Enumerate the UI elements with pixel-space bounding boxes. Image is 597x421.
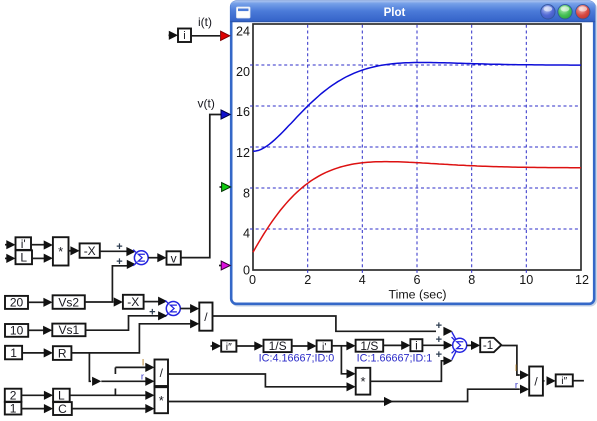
- gain block -X1: [80, 243, 100, 257]
- svg-text:Plot: Plot: [384, 7, 406, 19]
- svg-text:2: 2: [304, 273, 311, 287]
- divide block div1: [199, 303, 212, 331]
- block v: [167, 251, 181, 264]
- wire i' to 1/S 2: [332, 345, 347, 347]
- arrow into div2 lower: [145, 377, 154, 386]
- block i'' (first): [221, 340, 236, 351]
- block i (current source display): [178, 29, 191, 43]
- wire i-prime to multiplier: [31, 244, 46, 246]
- svg-text:6: 6: [413, 273, 420, 287]
- svg-text:*: *: [58, 244, 63, 259]
- wire i'' to 1/S 1: [236, 345, 255, 347]
- multiplier block *1: [53, 237, 69, 265]
- svg-text:Vs2: Vs2: [58, 295, 79, 309]
- wire -1 to div3 upper: [501, 346, 520, 376]
- svg-text:+: +: [436, 334, 442, 346]
- arrow into sum3 bottom: [443, 356, 452, 365]
- svg-text:1: 1: [10, 346, 17, 360]
- wire to div2 upper: [115, 366, 146, 368]
- svg-text:i: i: [183, 30, 185, 42]
- summing junction sum1: [133, 250, 137, 254]
- wire div2 output to mult3: [168, 374, 348, 387]
- vertical from L junction upper part: [114, 367, 116, 374]
- arrow into -X2: [114, 297, 123, 306]
- arrow into div1 lower: [190, 319, 199, 328]
- mid arrow on mult2 output wire: [384, 397, 393, 406]
- svg-text:-X: -X: [84, 244, 96, 258]
- wire i' branch to mult3: [341, 346, 347, 374]
- arrow into multiplier in1: [44, 240, 53, 249]
- wire R branch down: [89, 353, 91, 381]
- svg-text:4: 4: [243, 227, 250, 241]
- svg-text:*: *: [159, 393, 164, 408]
- wire mult2 output to div3 lower: [168, 389, 520, 401]
- constant block 10: [5, 324, 28, 337]
- input arrow into i-doubleprime block: [211, 345, 214, 347]
- svg-text:L: L: [58, 389, 65, 403]
- vertical from L junction lower part: [114, 389, 116, 396]
- arrow into integrator 2: [346, 341, 355, 350]
- title bar: [230, 1, 595, 22]
- svg-text:+: +: [436, 320, 442, 332]
- arrow into C block: [44, 404, 53, 413]
- arrow into i'' output block: [547, 376, 556, 385]
- svg-text:2: 2: [10, 389, 17, 403]
- multiplier block mult2: [155, 387, 169, 413]
- integrator block 1/S second: [356, 340, 384, 352]
- svg-text:C: C: [58, 402, 67, 416]
- block Vs2: [53, 295, 85, 309]
- block Vs1: [52, 324, 85, 337]
- gain block -1 (pentagon): [480, 338, 501, 352]
- arrow into integrator 1: [254, 341, 263, 350]
- svg-text:v: v: [171, 251, 177, 265]
- wire L to multiplier: [32, 257, 46, 259]
- svg-text:IC:4.16667;ID:0: IC:4.16667;ID:0: [259, 352, 335, 364]
- svg-text:IC:1.66667;ID:1: IC:1.66667;ID:1: [357, 352, 433, 364]
- svg-text:*: *: [360, 374, 365, 389]
- svg-text:1/S: 1/S: [360, 339, 378, 353]
- window buttons: [541, 5, 555, 19]
- wire Vs2 to -X2: [85, 301, 114, 303]
- wire mult3 output to sum3 bottom: [370, 361, 444, 382]
- wire R to div1 lower: [71, 324, 191, 353]
- constant block 1 (R value): [5, 346, 22, 360]
- wire -X2 to sum2: [144, 301, 159, 303]
- wire 1/S2 to i: [383, 344, 402, 346]
- arrow into mult2 lower: [145, 404, 154, 413]
- arrow into div1 upper: [190, 304, 199, 313]
- svg-text:Vs1: Vs1: [59, 323, 80, 337]
- svg-text:Time (sec): Time (sec): [388, 288, 446, 302]
- svg-text:L: L: [20, 251, 27, 265]
- constant block 20: [5, 296, 28, 309]
- wire v block to plot: [181, 115, 221, 258]
- gain block -X2: [123, 295, 144, 309]
- svg-text:+: +: [436, 349, 442, 361]
- input arrow into L block: [5, 257, 7, 259]
- svg-text:10: 10: [519, 273, 533, 287]
- divide block div3: [529, 367, 543, 396]
- constant block 2: [5, 389, 22, 402]
- arrow into sum1 plus1: [126, 247, 135, 256]
- arrow into sum3 top: [443, 327, 452, 336]
- wire *1 to -X1: [69, 250, 72, 252]
- wire 10 to Vs1: [28, 329, 44, 331]
- svg-text:-1: -1: [483, 340, 493, 352]
- input arrow into i-prime block: [5, 244, 7, 246]
- summing junction sum2: [165, 300, 169, 304]
- svg-text:8: 8: [243, 186, 250, 200]
- arrow into sum3 middle: [444, 341, 453, 350]
- red arrow plot input i(t): [221, 31, 230, 40]
- mid arrow on R branch wire: [92, 377, 101, 386]
- wire i to sum3: [422, 344, 444, 346]
- wire R branch to div2 lower: [101, 380, 146, 382]
- grid lines: [307, 25, 309, 274]
- arrow into R: [44, 348, 53, 357]
- block i'' (output): [556, 374, 573, 386]
- arrow into sum1 plus2: [127, 260, 136, 269]
- wire 1 to R: [22, 352, 44, 354]
- multiplier block mult3: [356, 368, 371, 395]
- wire sum2 to div1: [180, 308, 191, 310]
- arrow into L bottom block: [44, 391, 53, 400]
- constant block 1 (C value): [5, 402, 22, 414]
- arrow into v block: [157, 253, 166, 262]
- svg-text:R: R: [58, 346, 67, 360]
- arrow into mult3 in1: [347, 369, 356, 378]
- summing junction sum3: [452, 337, 456, 341]
- svg-text:20: 20: [10, 296, 24, 310]
- svg-text:10: 10: [10, 324, 24, 338]
- arrow into sum2 input1: [158, 297, 167, 306]
- arrow into i block (state): [401, 341, 410, 350]
- arrow into div2 upper: [145, 363, 154, 372]
- svg-text:20: 20: [236, 65, 250, 79]
- wire Vs1 to sum2: [86, 316, 159, 330]
- svg-text:i″: i″: [226, 341, 232, 353]
- svg-text:12: 12: [575, 273, 589, 287]
- svg-text:1/S: 1/S: [269, 339, 287, 353]
- svg-text:r: r: [515, 380, 518, 391]
- svg-text:i: i: [415, 339, 418, 353]
- arrow into sum2 input2: [158, 311, 167, 320]
- block L (bottom row): [53, 389, 70, 402]
- svg-text:12: 12: [236, 146, 250, 160]
- wire -X1 to sum1: [100, 250, 127, 252]
- svg-text:1: 1: [10, 402, 17, 416]
- wire 2 to L: [21, 394, 44, 396]
- svg-text:24: 24: [236, 25, 250, 39]
- plot window frame: [233, 3, 596, 305]
- title bar icon: [237, 7, 251, 18]
- arrow into div3 lower: [520, 385, 529, 394]
- svg-text:i': i': [21, 237, 26, 251]
- wire 1/S to i': [292, 345, 308, 347]
- svg-text:4: 4: [359, 273, 366, 287]
- svg-text:i(t): i(t): [198, 15, 212, 29]
- divide block div2: [155, 360, 169, 387]
- block R: [53, 346, 72, 360]
- block L (top row): [16, 250, 33, 264]
- svg-text:-X: -X: [127, 295, 139, 309]
- wire 1 to C: [21, 408, 44, 410]
- input arrow into block i: [169, 34, 170, 36]
- svg-text:8: 8: [468, 273, 475, 287]
- wire div1 output to sum3 top: [213, 316, 437, 331]
- wire sum3 to -1 gain: [467, 344, 472, 346]
- red curve i: [253, 162, 581, 253]
- block i': [16, 237, 32, 250]
- svg-text:+: +: [116, 256, 122, 268]
- sum3 blue input stubs: [452, 332, 456, 340]
- block C: [53, 402, 72, 415]
- arrow into Vs2: [43, 298, 52, 307]
- magenta arrow plot input: [219, 265, 222, 267]
- arrow into Vs1: [43, 326, 52, 335]
- blue curve v: [253, 63, 581, 152]
- wire div3 to i-doubleprime 2: [543, 380, 545, 382]
- block i (state): [410, 339, 422, 351]
- wire C to mult2: [72, 408, 146, 410]
- arrow into mult2 upper: [145, 391, 154, 400]
- wire Vs2 junction up to sum1: [112, 266, 127, 302]
- arrow into div3 upper: [520, 370, 529, 379]
- svg-text:0: 0: [249, 273, 256, 287]
- arrow into -X1: [70, 246, 79, 255]
- blue arrow plot input v(t): [221, 110, 230, 119]
- arrow into multiplier in2: [44, 254, 53, 263]
- svg-text:i″: i″: [561, 375, 567, 387]
- block i' (middle): [317, 340, 332, 351]
- svg-text:v(t): v(t): [198, 97, 215, 111]
- wire L to mult2: [70, 394, 146, 396]
- wire sum1 to v: [148, 257, 158, 259]
- wire 20 to Vs2: [28, 301, 44, 303]
- arrow into i' block: [307, 341, 316, 350]
- svg-text:+: +: [116, 241, 122, 253]
- svg-text:16: 16: [236, 105, 250, 119]
- green arrow plot input: [220, 186, 223, 188]
- arrow into mult3 in2: [347, 382, 356, 391]
- integrator block 1/S first: [264, 340, 292, 352]
- arrow into -1 gain: [471, 341, 480, 350]
- svg-text:i': i': [322, 341, 326, 353]
- wire i to plot: [191, 35, 220, 37]
- svg-text:l: l: [515, 363, 517, 374]
- plot frame: [253, 24, 581, 270]
- wire i'' output stub: [573, 380, 584, 382]
